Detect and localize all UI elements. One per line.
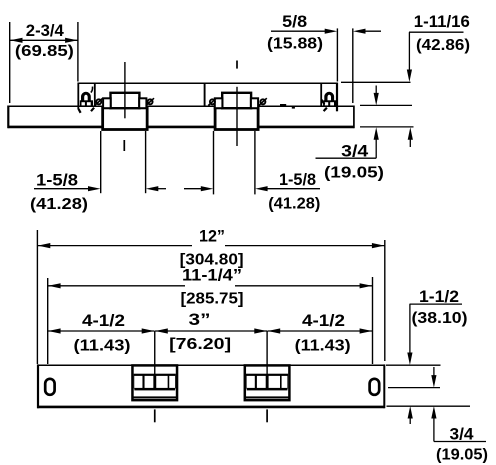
right end spring clip (omega) bbox=[322, 92, 336, 106]
left cable clip (plan view) bbox=[132, 365, 177, 400]
left clip centerline dash (plan) bbox=[154, 409, 156, 422]
svg-text:(19.05): (19.05) bbox=[436, 446, 488, 463]
center cable clip (plan view) bbox=[245, 365, 290, 400]
center clip centerline (plan) bbox=[266, 331, 268, 389]
dimension 5/8 (15.88) bbox=[267, 12, 381, 103]
bar bottom edge (side view) bbox=[8, 126, 355, 129]
center clip centerline dash (top) bbox=[236, 61, 238, 69]
tick mark on bar bbox=[292, 106, 295, 109]
dimension 1-1/2 (38.10) bbox=[386, 287, 470, 424]
rail left end edge bbox=[77, 83, 79, 110]
dimension 2-3/4 (69.85) bbox=[10, 21, 78, 103]
screw, center clip left bbox=[210, 99, 215, 104]
left cable clip (side view) left ear bbox=[103, 98, 111, 108]
bar left end (plan view) bbox=[37, 364, 39, 408]
bar left end edge bbox=[7, 106, 9, 129]
rail right end edge bbox=[336, 83, 338, 112]
svg-text:3/4: 3/4 bbox=[450, 425, 475, 444]
svg-text:12”: 12” bbox=[199, 227, 225, 246]
left clip centerline dash bbox=[123, 140, 125, 151]
svg-text:2-3/4: 2-3/4 bbox=[26, 21, 65, 40]
rail seam line bbox=[204, 83, 206, 106]
svg-text:(41.28): (41.28) bbox=[268, 196, 320, 213]
center cable clip (side view) left ear bbox=[215, 98, 223, 108]
dimension 11-1/4 inch [285.75] bbox=[48, 265, 373, 364]
dimension 3/4 (19.05) right of side view bbox=[316, 86, 414, 182]
svg-text:(11.43): (11.43) bbox=[295, 338, 351, 355]
dimension 1-11/16 (42.86) bbox=[341, 12, 470, 147]
svg-text:3”: 3” bbox=[189, 310, 211, 329]
center cable clip (side view) lower block bbox=[215, 108, 258, 130]
svg-text:[76.20]: [76.20] bbox=[169, 336, 231, 353]
tick mark on bar bbox=[280, 104, 286, 106]
svg-text:(38.10): (38.10) bbox=[412, 310, 468, 327]
bar top edge (plan view) bbox=[37, 364, 385, 366]
left clip centerline (plan) bbox=[154, 331, 156, 389]
bar right end (plan view) bbox=[383, 364, 385, 408]
svg-text:(41.28): (41.28) bbox=[30, 196, 88, 213]
svg-text:(15.88): (15.88) bbox=[267, 36, 323, 53]
screw, left clip left bbox=[96, 99, 101, 104]
screw, left clip right bbox=[148, 99, 153, 104]
left clip centerline bbox=[124, 62, 126, 118]
svg-text:5/8: 5/8 bbox=[282, 12, 307, 31]
dimension 3/4 (19.05) plan view bbox=[388, 367, 488, 463]
svg-text:(11.43): (11.43) bbox=[74, 338, 131, 355]
center clip centerline dash (plan) bbox=[266, 409, 268, 422]
bar right end edge bbox=[353, 106, 355, 129]
dimension 3 inch [76.20] bbox=[155, 310, 267, 353]
dimension 1-5/8 (41.28) left clip bbox=[30, 131, 166, 213]
svg-text:11-1/4”: 11-1/4” bbox=[182, 265, 242, 284]
svg-text:(69.85): (69.85) bbox=[15, 43, 74, 60]
left cable clip (side view) lower block bbox=[103, 108, 147, 130]
right end-clip cell line bbox=[320, 83, 322, 106]
svg-text:1-5/8: 1-5/8 bbox=[36, 171, 78, 190]
dimension 1-5/8 (41.28) center clip bbox=[184, 131, 320, 213]
dimension 4-1/2 (11.43) right bbox=[268, 311, 373, 355]
left end-clip cell line bbox=[94, 83, 96, 106]
right oval mounting hole bbox=[370, 379, 380, 395]
svg-text:[285.75]: [285.75] bbox=[181, 291, 244, 308]
svg-text:1-5/8: 1-5/8 bbox=[279, 170, 316, 189]
svg-text:4-1/2: 4-1/2 bbox=[82, 311, 125, 330]
bar bottom edge (plan view) bbox=[37, 406, 385, 409]
left cable clip (side view) head bbox=[111, 93, 140, 108]
svg-text:(19.05): (19.05) bbox=[324, 164, 384, 181]
left end spring clip (omega) bbox=[80, 87, 93, 106]
dimension 12 inch [304.80] bbox=[37, 227, 384, 364]
center cable clip (side view) head bbox=[222, 93, 251, 108]
bar top edge (side view) bbox=[8, 105, 355, 107]
svg-text:4-1/2: 4-1/2 bbox=[302, 311, 345, 330]
svg-text:(42.86): (42.86) bbox=[416, 37, 470, 54]
center cable clip (side view) right ear bbox=[251, 98, 258, 108]
left oval mounting hole bbox=[45, 379, 54, 395]
left cable clip (side view) right ear bbox=[139, 98, 146, 108]
center clip centerline bbox=[236, 87, 238, 146]
screw, center clip right bbox=[260, 99, 265, 104]
svg-text:1-11/16: 1-11/16 bbox=[414, 12, 470, 31]
svg-text:1-1/2: 1-1/2 bbox=[419, 287, 459, 306]
svg-text:3/4: 3/4 bbox=[341, 142, 369, 161]
rail top edge bbox=[78, 82, 338, 84]
dimension 4-1/2 (11.43) left bbox=[48, 311, 154, 355]
